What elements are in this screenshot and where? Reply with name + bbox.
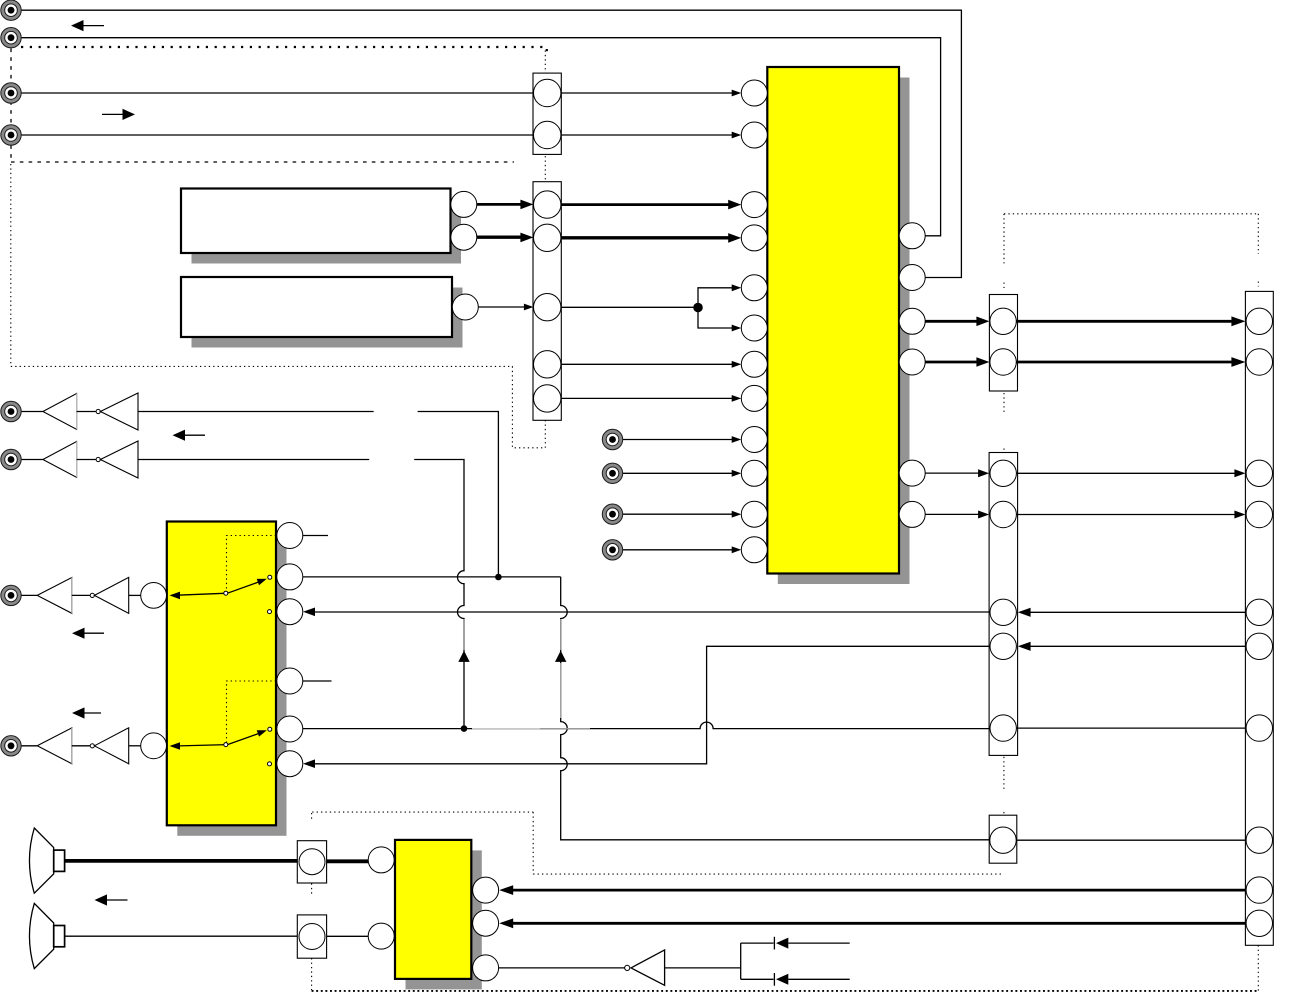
U2 switch2 left arrowhead [170, 742, 181, 750]
G2 pin circle [299, 924, 325, 950]
shadow of source block S1 [192, 199, 462, 264]
U2 right port circle 1 [277, 523, 303, 549]
tap T1 bar [773, 937, 775, 950]
U2 right port circle 5 [277, 716, 303, 742]
buffer row4 bubble [90, 744, 94, 748]
speaker SPK1 magnet box [54, 850, 65, 871]
M4 pin circle 2 [990, 501, 1016, 527]
source block S2 (white) [181, 277, 452, 337]
wire M4 pin2 to J1 pin4 [1016, 514, 1235, 516]
annotation arrow row3 pointing left [72, 628, 104, 639]
selector M1 rectangle [533, 73, 561, 154]
J1 pin circle 9 [1246, 877, 1272, 903]
selector M6 rectangle [989, 815, 1017, 863]
demux M4 rectangle [989, 453, 1018, 756]
S1 output port circle 1 [451, 191, 477, 217]
J1 pin circle 1 [1246, 308, 1272, 334]
buffer row1 wire port to triangle [21, 411, 43, 413]
U3 right port circle 3 [473, 955, 499, 981]
M4 pin circle 4 [990, 633, 1016, 659]
wire M2 output3 to junction node A [561, 306, 698, 308]
shadow of subsystem U3 [406, 850, 482, 989]
wire U1 output3 to M3 input1 (bold) [925, 320, 977, 323]
wire Conn12 to U1 input12 [623, 549, 739, 551]
S2 output port circle [452, 294, 478, 320]
arrowhead into J1 pin4 [1234, 511, 1245, 519]
U1 input port circle 8 [741, 385, 767, 411]
M2 pin circle 3 [534, 294, 561, 321]
wire M4 pin4 routed to U2 contact-in2 [314, 646, 990, 764]
M2 pin circle 2 [534, 224, 561, 251]
tap T2 bar [773, 973, 775, 986]
buffer row2 bubble [96, 457, 100, 461]
dotted zone-3 top border [312, 811, 533, 813]
bold arrowhead into J1 pin2 [1231, 357, 1245, 367]
dangling wire into tap T2 [788, 978, 849, 980]
annotation arrow row4 pointing left [72, 707, 101, 718]
dotted zone-2 right border vertical [1257, 214, 1259, 254]
wire M3 output2 to J1 pin2 (bold) [1016, 361, 1233, 364]
wire N1 output to split bracket [665, 967, 741, 969]
G1 pin circle [299, 849, 325, 875]
wire feedback net1 from Conn1 to U1 output2 [21, 10, 961, 277]
wire J1 pin6 to M4 pin4 (leftward) [1030, 645, 1246, 647]
gain block G1 square [297, 841, 326, 883]
buffer row4 triangle A4b [94, 728, 128, 764]
arrowhead into U1 input1 [732, 90, 742, 97]
J1 pin circle 6 [1246, 633, 1272, 659]
U2 switch2 contact1 circle [268, 727, 272, 731]
U2 right port circle 3 [277, 599, 303, 625]
dotted zone-3 right border [532, 812, 534, 874]
subsystem U3 DAC block (yellow) [395, 840, 471, 979]
wire buffer row1 right segment corner down to node B [418, 412, 499, 578]
M6 pin circle [990, 827, 1016, 853]
U2 right port circle 4 [277, 668, 303, 694]
U3 right port circle 2 [473, 910, 499, 936]
wire M6 output to J1 pin8 [1016, 839, 1246, 841]
U3 input port circle 2 [368, 923, 394, 949]
wire U1 output5 to M4 pin1 [925, 472, 979, 474]
connection port Conn6 [1, 449, 21, 469]
wire M4 pin5 to J1 pin7 [1016, 727, 1246, 729]
gray faded segment on v1 [463, 619, 465, 650]
U1 output port circle 1 [899, 223, 925, 249]
wire S1 output1 to M2 input1 (bold) [477, 203, 523, 206]
U2 left port circle 1 [141, 583, 167, 609]
left arrowhead into U2 contact-in1 [303, 608, 315, 617]
wire U2 select-out1 horizontal to v2 corner [303, 576, 561, 578]
wire M4 pin1 to J1 pin3 [1016, 472, 1235, 474]
wire U1 output6 to M4 pin2 [925, 513, 979, 515]
wire J1 pin5 to M4 pin3 (leftward) [1030, 611, 1246, 613]
U2 switch1 dotted control path [227, 536, 277, 593]
annotation arrow top-left pointing left [71, 20, 104, 31]
bold left arrowhead into U3 return2 [499, 918, 513, 928]
buffer row3 wire port to triangle [21, 594, 37, 596]
U1 output port circle 4 [899, 349, 925, 375]
speaker SPK2 magnet box [54, 926, 65, 947]
U2 switch1 pivot circle [224, 591, 228, 595]
U2 switch2 contact2 circle [268, 762, 272, 766]
wire M4 pin3 to U2 contact-in1 [314, 611, 990, 613]
wire G2 to U3 input2 [327, 935, 369, 937]
wire Conn9 to U1 input9 [623, 439, 739, 441]
wire Conn11 to U1 input11 [623, 513, 739, 515]
up arrowhead on v2 [555, 651, 566, 662]
wire J1 pin10 to U3 return2 (bold leftward) [511, 922, 1246, 925]
wire U2 control stub2 [303, 680, 332, 682]
wire buffer row2 left segment [138, 459, 369, 461]
U2 switch1 contact2 circle [268, 610, 272, 614]
buffer row2 wire port to triangle [21, 459, 43, 461]
U3 right port circle 1 [473, 877, 499, 903]
buffer row3 bubble [90, 593, 94, 597]
U1 input port circle 1 [741, 80, 767, 106]
U1 input port circle 5 [741, 275, 767, 301]
subsystem U2 switch block (yellow) [167, 522, 276, 826]
gray faded segment2 on h3 [540, 728, 590, 730]
J1 pin circle 3 [1246, 460, 1272, 486]
wire U1 output4 to M3 input2 (bold) [925, 361, 977, 364]
U2 switch1 pole wire to left port [174, 593, 228, 595]
U1 input port circle 2 [741, 122, 767, 148]
arrowhead into U1 input5 [732, 284, 742, 291]
buffer row2 triangle A2a gray base [76, 442, 78, 478]
dotted zone-1 bottom border [11, 366, 546, 447]
dashed net trunk vertical at left ports [10, 49, 12, 162]
bold left arrowhead into U3 return1 [499, 885, 513, 895]
wire Conn10 to U1 input10 [623, 472, 739, 474]
wire SPK1 to G1 (bold) [65, 859, 298, 863]
buffer row2 wire between triangles [77, 459, 97, 461]
dotted zone-3 left border vertical [311, 813, 313, 820]
connection port Conn11 [602, 504, 622, 524]
speaker SPK1 horn [29, 828, 53, 893]
M2 pin circle 1 [534, 191, 561, 218]
buffer row3 triangle A3b [94, 577, 128, 613]
wire S1 output2 to M2 input2 (bold) [477, 235, 523, 238]
S1 output port circle 2 [451, 224, 477, 250]
wire bracket top branch to tap T1 [741, 942, 774, 944]
gray faded segment2 on v2 [560, 663, 562, 718]
U2 switch2 pole wire to left port [174, 745, 228, 746]
junction dot node B on select-out1 [495, 574, 502, 581]
inverter N1 bubble [625, 965, 630, 970]
U2 switch2 pivot circle [224, 743, 228, 747]
buffer row1 triangle A1a [43, 394, 77, 430]
arrowhead into U1 input9 [732, 436, 742, 443]
U2 switch1 contact1 circle [268, 575, 272, 579]
dotted zone-2 left border vertical [1003, 214, 1005, 264]
connection port Conn1 [1, 0, 21, 20]
shadow of subsystem U2 [177, 532, 286, 836]
U2 switch2 throw wire [228, 733, 261, 745]
U1 output port circle 2 [899, 265, 925, 291]
U1 output port circle 5 [899, 460, 925, 486]
connection port Conn5 [1, 401, 21, 421]
buffer row4 wire between triangles [72, 745, 90, 747]
source block S1 (white) [181, 189, 451, 254]
buffer row4 triangle A4a [37, 728, 72, 764]
buffer row3 triangle A3a gray base [71, 578, 73, 614]
annotation arrow row1-2 pointing left [173, 430, 206, 441]
arrowhead into U1 input12 [732, 546, 742, 553]
wire node A branch down to U1 input6 [698, 308, 739, 329]
buffer row2 triangle A2b [100, 441, 138, 478]
U2 switch1 left arrowhead [170, 592, 181, 600]
shadow of source block S2 [192, 288, 463, 348]
wire G1 to U3 input1 (bold) [327, 859, 369, 863]
U2 switch1 throw arrowhead [257, 576, 268, 586]
U1 input port circle 12 [741, 537, 767, 563]
connection port Conn7 [1, 585, 21, 605]
annotation arrow speaker row pointing left [95, 894, 128, 905]
wire Conn3 to selector M1 input1 [21, 92, 533, 94]
dotted zone-2 left border lower vertical [1003, 757, 1005, 790]
inverter N1 triangle [631, 950, 665, 985]
U2 switch2 throw arrowhead [257, 727, 268, 737]
buffer row4 wire to U2 output circle [129, 745, 141, 747]
buffer row1 triangle A1b [100, 393, 138, 430]
J1 pin circle 10 [1246, 910, 1272, 936]
U2 right port circle 2 [277, 564, 303, 590]
wire S2 output to M2 input3 [478, 306, 524, 308]
M4 pin circle 5 [990, 715, 1016, 741]
U1 input port circle 6 [741, 315, 767, 341]
connection port Conn2 [1, 28, 21, 48]
dangling wire into tap T1 [788, 942, 849, 944]
bold arrowhead into U1 input3 [728, 200, 741, 210]
buffer row3 wire between triangles [72, 594, 90, 596]
U2 right port circle 6 [277, 751, 303, 777]
bold arrowhead into M2 input1 [520, 200, 533, 210]
wire J1 pin9 to U3 return1 (bold leftward) [511, 889, 1246, 892]
dotted zone-1 left border vertical [10, 164, 12, 366]
outport stack J1 rectangle [1245, 291, 1273, 945]
J1 pin circle 4 [1246, 501, 1272, 527]
gain block G2 square [297, 915, 326, 958]
wire U2 control stub1 [303, 535, 328, 537]
bold arrowhead into J1 pin1 [1231, 316, 1245, 326]
U3 input port circle 1 [368, 847, 394, 873]
arrowhead into U1 input7 [732, 361, 742, 368]
arrowhead into U1 input2 [732, 132, 742, 139]
speaker SPK2 horn [29, 903, 53, 968]
left arrowhead into M4 pin4 [1018, 642, 1031, 651]
wire SPK2 to G2 [65, 935, 298, 937]
U1 input port circle 3 [741, 192, 767, 218]
junction node A dot [693, 303, 703, 313]
dotted zone-3 bottom border [312, 990, 1259, 992]
U1 input port circle 10 [741, 460, 767, 486]
U1 input port circle 4 [741, 225, 767, 251]
mux M3 rectangle [989, 295, 1017, 392]
dotted zone-3 right-bottom vertical at outport stack [1257, 945, 1259, 991]
M4 pin circle 1 [990, 460, 1016, 486]
connection port Conn12 [602, 540, 622, 560]
buffer row1 triangle A1a gray base [76, 394, 78, 430]
U1 output port circle 3 [899, 308, 925, 334]
wire U2 select-out2 h3 to M4 pin5 [303, 722, 990, 729]
annotation arrow upper pointing right [102, 109, 135, 120]
arrowhead into U1 input8 [732, 395, 742, 402]
gray faded segment on h3 [472, 728, 540, 730]
buffer row1 bubble [96, 409, 100, 413]
left arrowhead into U2 contact-in2 [303, 759, 315, 768]
connection port Conn9 [602, 429, 622, 449]
buffer row3 wire to U2 output circle [129, 594, 141, 596]
buffer row4 wire port to triangle [21, 745, 37, 747]
wire M2 output2 to U1 input4 (bold) [561, 236, 729, 239]
connection port Conn3 [1, 83, 21, 103]
U2 left port circle 2 [141, 733, 167, 759]
U1 output port circle 6 [899, 501, 925, 527]
junction dot node C on h3 [461, 725, 468, 732]
wire M2 output4 to U1 input7 [561, 363, 739, 365]
M3 pin circle 2 [990, 349, 1016, 375]
connection port Conn4 [1, 125, 21, 145]
M3 pin circle 1 [990, 308, 1016, 334]
arrowhead into J1 pin3 [1234, 469, 1245, 477]
connection port Conn10 [602, 463, 622, 483]
dotted zone-1 top border [21, 46, 548, 48]
bold arrowhead into M3 input2 [976, 357, 989, 367]
wire v2 vertical with hops down to M6 [561, 577, 990, 840]
U2 switch1 throw wire [228, 582, 261, 594]
dashed zone divider horizontal y162 [11, 161, 514, 163]
J1 pin circle 2 [1246, 349, 1272, 375]
gray faded segment on v2 [560, 619, 562, 650]
wire M1 output2 to U1 input2 [561, 134, 739, 136]
wire feedback net2 from Conn2 to U1 output1 [21, 38, 940, 236]
dotted zone-3 inner bottom border to demux [533, 873, 1004, 875]
wire U3 output3 to inverter N1 [499, 967, 625, 969]
U2 switch2 dotted control path [227, 681, 277, 743]
M1 pin circle 2 [534, 121, 561, 148]
wire M1 output1 to U1 input1 [561, 92, 739, 94]
buffer row1 wire between triangles [77, 411, 97, 413]
subsystem U1 codec block (yellow) [767, 67, 899, 574]
buffer row4 triangle A4a gray base [71, 728, 73, 764]
wire v1 from buffer row2 with hops down to node C [414, 460, 464, 729]
arrowhead into M4 pin1 [978, 469, 989, 477]
tap T2 left arrowhead [776, 974, 788, 985]
wire M3 output1 to J1 pin1 (bold) [1016, 320, 1233, 323]
wire node A branch up to U1 input5 [698, 288, 739, 308]
arrowhead into U1 input11 [732, 511, 742, 518]
wire M2 output1 to U1 input3 (bold) [561, 203, 729, 206]
up arrowhead on v1 [458, 651, 469, 662]
wire buffer row1 left segment [138, 411, 374, 413]
shadow of subsystem U1 [778, 78, 910, 585]
mux M2 rectangle [533, 182, 561, 421]
dotted zone-1 top-right corner tail [546, 49, 548, 54]
bold arrowhead into M3 input1 [976, 317, 989, 327]
bold arrowhead into M2 input2 [520, 233, 533, 243]
M2 pin circle 5 [534, 385, 561, 412]
connection port Conn8 [1, 736, 21, 756]
bold arrowhead into U1 input4 [728, 233, 741, 243]
J1 pin circle 5 [1246, 599, 1272, 625]
M1 pin circle 1 [534, 79, 561, 106]
left arrowhead into M4 pin3 [1018, 608, 1031, 617]
wire split bracket vertical [740, 943, 742, 979]
tap T1 left arrowhead [776, 938, 788, 949]
wire Conn4 to selector M1 input2 [21, 134, 533, 136]
M2 pin circle 4 [534, 351, 561, 378]
buffer row2 triangle A2a [43, 442, 77, 478]
wire M2 output5 to U1 input8 [561, 397, 739, 399]
arrowhead into M2 input3 [524, 304, 534, 311]
arrowhead into U1 input6 [732, 325, 742, 332]
arrowhead into M4 pin2 [978, 511, 989, 519]
wire bracket bottom branch to tap T2 [741, 978, 774, 980]
U1 input port circle 9 [741, 427, 767, 453]
dotted zone-2 top border [1004, 213, 1258, 215]
dotted zone-1 right border vertical [544, 50, 546, 448]
arrowhead into U1 input10 [732, 470, 742, 477]
M4 pin circle 3 [990, 599, 1016, 625]
U1 input port circle 11 [741, 501, 767, 527]
J1 pin circle 8 [1246, 827, 1272, 853]
J1 pin circle 7 [1246, 715, 1272, 741]
U1 input port circle 7 [741, 351, 767, 377]
buffer row3 triangle A3a [37, 578, 72, 614]
